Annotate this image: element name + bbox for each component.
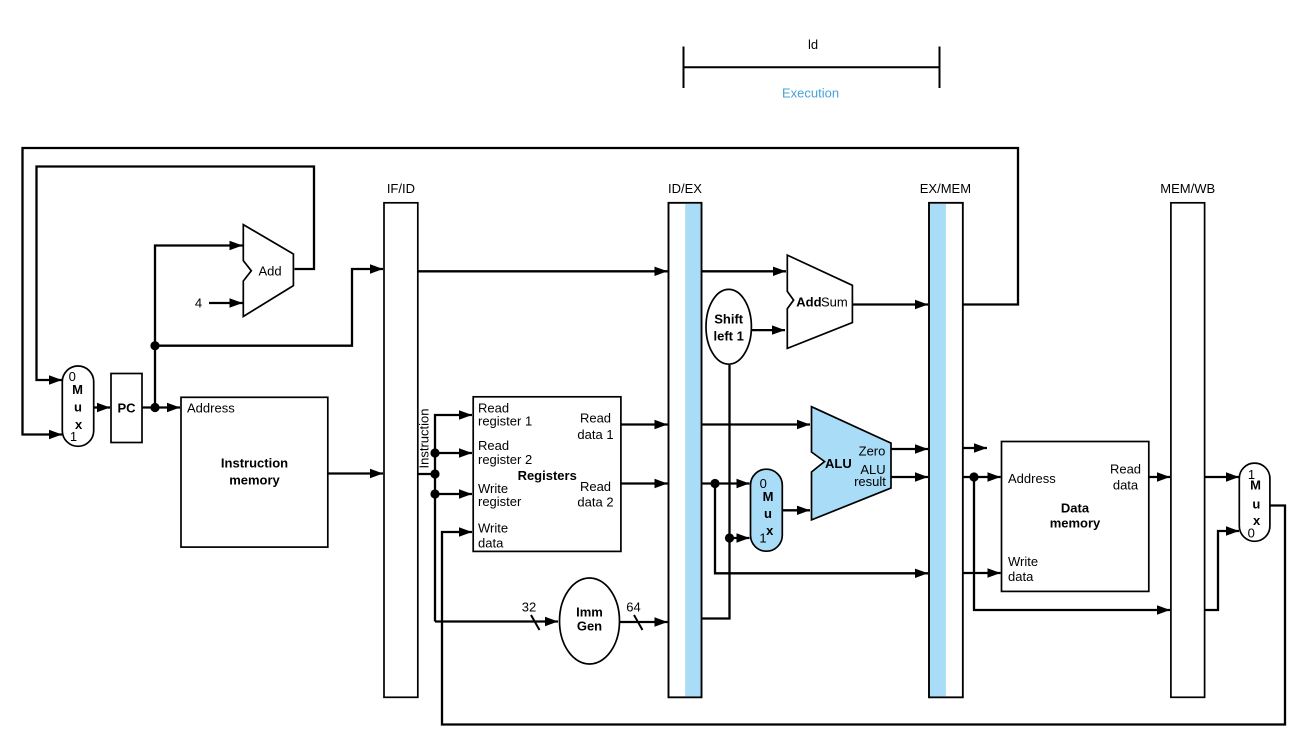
wire MEM/WB read data to Mux1 — [1205, 476, 1239, 478]
svg-text:Address: Address — [187, 401, 235, 416]
junction PC-Add branch — [150, 341, 159, 350]
svg-text:u: u — [1252, 497, 1260, 512]
instruction memory — [181, 397, 328, 547]
wire instruction vertical bus — [435, 415, 472, 622]
wire to Write register — [435, 493, 472, 495]
svg-text:ld: ld — [808, 37, 818, 52]
wire ALU Zero to EX/MEM — [891, 448, 928, 450]
junction instruction read register 2 — [430, 448, 439, 457]
wire instruction bus from IF/ID — [418, 473, 435, 475]
wire IF/ID PC to ID/EX — [418, 270, 668, 272]
wire Read data 1 to ID/EX — [621, 423, 668, 425]
wire Data memory Read data to MEM/WB — [1149, 476, 1170, 478]
stage bracket bar — [684, 66, 940, 68]
wire ID/EX read data 2 to ALU mux — [702, 482, 750, 484]
svg-text:Read: Read — [478, 438, 509, 453]
svg-text:IF/ID: IF/ID — [387, 181, 415, 196]
wire Imm Gen to ID/EX — [620, 621, 668, 623]
svg-text:Write: Write — [478, 520, 508, 535]
stage bracket left tick — [683, 47, 685, 89]
junction read data 2 — [710, 479, 719, 488]
svg-text:u: u — [764, 506, 772, 521]
svg-text:M: M — [763, 489, 774, 504]
junction instruction main — [430, 469, 439, 478]
adder Add (PC+4) — [243, 225, 293, 317]
svg-text:left 1: left 1 — [714, 328, 744, 343]
junction immediate — [725, 533, 734, 542]
svg-text:data: data — [1008, 569, 1034, 584]
wire branch feedback EX/MEM to Mux1 — [23, 148, 1019, 435]
wire ID/EX read data 1 to ALU — [702, 423, 811, 425]
svg-text:Add: Add — [796, 295, 821, 310]
wire PC to Instruction memory Address — [142, 406, 180, 408]
svg-text:x: x — [766, 523, 774, 538]
svg-text:memory: memory — [229, 473, 280, 488]
wire ID/EX immediate out — [702, 365, 730, 619]
svg-text:Instruction: Instruction — [417, 409, 432, 469]
svg-text:Instruction: Instruction — [221, 455, 288, 470]
svg-text:data 2: data 2 — [577, 495, 613, 510]
svg-text:Zero: Zero — [859, 444, 886, 459]
pipeline register MEM/WB — [1160, 181, 1215, 697]
svg-text:data: data — [478, 535, 504, 550]
svg-text:Registers: Registers — [518, 468, 577, 483]
shift left 1 unit — [706, 289, 751, 364]
svg-text:data 1: data 1 — [577, 427, 613, 442]
junction instruction write register — [430, 489, 439, 498]
svg-text:register: register — [478, 494, 522, 509]
svg-text:Address: Address — [1008, 471, 1056, 486]
svg-text:MEM/WB: MEM/WB — [1160, 181, 1215, 196]
svg-text:Shift: Shift — [714, 311, 744, 326]
svg-text:data: data — [1113, 477, 1139, 492]
wire read data 2 to EX/MEM write data — [715, 484, 928, 574]
wire PC+4 feedback Add to Mux0 — [37, 167, 315, 381]
svg-text:M: M — [72, 382, 83, 397]
wire MEM/WB ALU result to Mux0 — [1205, 531, 1239, 610]
pipeline register IF/ID — [384, 181, 418, 697]
svg-text:register 2: register 2 — [478, 452, 532, 467]
wire EX/MEM ALU result to Data memory Address — [963, 476, 1001, 478]
wire to Imm Gen — [435, 620, 558, 622]
registers file — [473, 397, 621, 552]
svg-text:Imm: Imm — [576, 604, 603, 619]
svg-text:Read: Read — [1110, 462, 1141, 477]
wire to Read register 2 — [435, 452, 472, 454]
wire AddSum to EX/MEM — [853, 303, 929, 305]
pipeline register ID/EX — [668, 181, 702, 697]
svg-text:PC: PC — [117, 401, 136, 416]
adder AddSum (branch target) — [787, 255, 852, 348]
wire write-back Mux to Registers Write data — [442, 506, 1285, 725]
wire Shift left 1 to AddSum — [751, 329, 785, 331]
svg-text:Gen: Gen — [577, 618, 602, 633]
junction ALU result — [969, 472, 978, 481]
svg-text:ID/EX: ID/EX — [668, 181, 702, 196]
svg-text:Data: Data — [1061, 500, 1090, 515]
mux M1 (PC source) — [62, 366, 93, 446]
wire Mux to PC — [94, 406, 110, 408]
slash 32-bit — [531, 615, 540, 630]
data memory — [1002, 442, 1149, 592]
register PC — [111, 374, 142, 443]
immediate generator Imm Gen — [560, 578, 620, 664]
wire ALU result bypass to MEM/WB — [974, 477, 1170, 610]
wire constant 4 to Add — [209, 302, 243, 304]
stage bracket right tick — [939, 47, 941, 89]
svg-text:result: result — [854, 474, 886, 489]
wire PC to IF/ID — [155, 269, 383, 346]
svg-text:64: 64 — [626, 600, 640, 615]
wire Instruction memory to IF/ID — [328, 472, 383, 474]
svg-text:M: M — [1250, 477, 1261, 492]
junction PC output — [150, 403, 159, 412]
wire ALU mux to ALU — [783, 509, 811, 511]
svg-text:Execution: Execution — [782, 86, 839, 101]
wire ID/EX PC to AddSum — [702, 270, 787, 272]
wire immediate to ALU mux input 1 — [730, 537, 750, 539]
mux M3 (write-back) — [1239, 463, 1270, 541]
svg-text:EX/MEM: EX/MEM — [920, 181, 971, 196]
svg-text:ALU: ALU — [825, 456, 852, 471]
svg-text:1: 1 — [70, 429, 77, 444]
svg-text:Sum: Sum — [821, 295, 848, 310]
svg-text:u: u — [74, 399, 82, 414]
alu ALU — [812, 407, 892, 520]
svg-text:1: 1 — [759, 531, 766, 546]
wire EX/MEM to Data memory write data — [963, 572, 1001, 574]
svg-text:0: 0 — [1248, 525, 1255, 540]
wire PC up to Add — [155, 246, 243, 408]
svg-text:Read: Read — [580, 479, 611, 494]
svg-text:Add: Add — [259, 264, 282, 279]
wire EX/MEM Zero out — [963, 447, 987, 449]
svg-text:Write: Write — [1008, 554, 1038, 569]
svg-text:Read: Read — [580, 410, 611, 425]
wire Read data 2 to ID/EX — [621, 482, 668, 484]
svg-text:4: 4 — [195, 296, 202, 311]
wire ALU result to EX/MEM — [891, 476, 928, 478]
svg-text:32: 32 — [522, 600, 536, 615]
svg-text:memory: memory — [1050, 515, 1101, 530]
svg-text:register 1: register 1 — [478, 414, 532, 429]
pipeline register EX/MEM — [920, 181, 971, 697]
mux M2 (ALU operand B) — [751, 469, 783, 551]
slash 64-bit — [634, 615, 643, 630]
